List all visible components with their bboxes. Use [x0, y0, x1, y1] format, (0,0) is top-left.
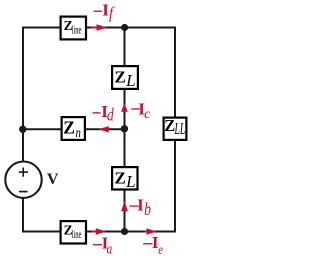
impedance Zline (bottom)	[61, 221, 86, 243]
svg-text:f: f	[109, 4, 115, 22]
voltage source V	[5, 162, 59, 198]
svg-text:LL: LL	[174, 119, 185, 137]
wire: middle horizontal (Zn to middle junction)	[85, 128, 125, 130]
impedance Zline (top)	[61, 17, 86, 40]
svg-text:I: I	[137, 195, 144, 214]
svg-text:L: L	[125, 172, 135, 191]
svg-text:Z: Z	[115, 68, 126, 87]
wire: middle vertical branch center (ZL1 to ZL2 through middle junction)	[124, 89, 126, 168]
current arrow -Ie (bottom wire right of junction, pointing right)	[145, 228, 157, 235]
wire: middle horizontal (left bus to Zn)	[23, 128, 62, 130]
svg-text:line: line	[72, 25, 82, 37]
wire: top horizontal bus	[22, 27, 176, 29]
svg-text:Z: Z	[63, 117, 75, 137]
junction: bottom node	[121, 228, 128, 235]
wire: left vertical (top wire to source +)	[22, 27, 24, 162]
svg-text:Z: Z	[164, 116, 175, 135]
svg-text:n: n	[76, 125, 81, 140]
impedance ZL (top of middle branch)	[112, 66, 138, 90]
junction: top node	[121, 24, 128, 31]
svg-text:a: a	[107, 240, 113, 256]
svg-text:d: d	[107, 106, 114, 125]
junction: middle node	[121, 125, 128, 132]
wire: middle vertical branch lower (ZL2 to bottom junction)	[124, 189, 126, 232]
svg-text:L: L	[125, 71, 135, 90]
current arrow -If (top wire, pointing right)	[91, 24, 107, 31]
svg-text:Z: Z	[115, 169, 126, 188]
impedance ZL (bottom of middle branch)	[112, 167, 137, 191]
label -Ia	[93, 234, 113, 256]
wire: right vertical (top wire to ZLL)	[174, 27, 176, 119]
svg-text:e: e	[158, 242, 163, 256]
current arrow -Ic (middle branch, pointing up)	[121, 103, 128, 111]
impedance Zn	[62, 117, 85, 140]
junction: left node	[19, 126, 26, 133]
current arrow -Ia (bottom wire left of junction, pointing right)	[92, 228, 107, 235]
svg-text:line: line	[72, 229, 82, 241]
label -Ic	[131, 100, 151, 123]
wire: left vertical (source - to bottom wire)	[22, 198, 24, 233]
label -Id	[93, 102, 114, 125]
current arrow -Ib (lower middle branch, pointing up)	[121, 201, 128, 211]
current arrow -Id (middle horizontal wire, pointing left)	[98, 126, 108, 132]
wire: bottom horizontal bus	[22, 231, 176, 233]
label -Ib	[129, 195, 151, 219]
svg-text:b: b	[144, 200, 151, 219]
wire: right vertical (ZLL to bottom wire)	[174, 140, 176, 233]
label -Ie	[143, 233, 163, 256]
label -If	[94, 0, 116, 22]
wire: middle vertical branch upper (top junction to ZL1)	[124, 28, 126, 67]
svg-text:V: V	[47, 171, 59, 188]
svg-text:c: c	[144, 107, 151, 122]
impedance ZLL (right branch)	[164, 116, 187, 140]
